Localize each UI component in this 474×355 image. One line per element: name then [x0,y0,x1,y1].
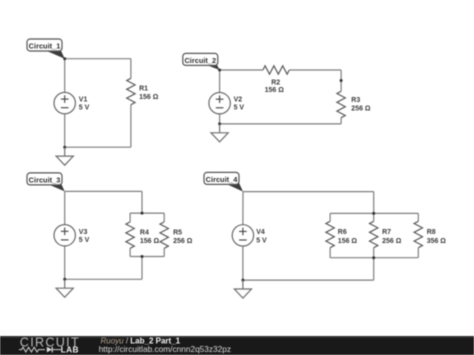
wire left lower [219,114,221,124]
svg-text:Circuit_4: Circuit_4 [206,175,239,184]
svg-text:LAB: LAB [61,345,79,355]
svg-text:R5: R5 [173,229,182,236]
wire top [65,190,142,192]
svg-text:156 Ω: 156 Ω [139,94,159,101]
R7 top lead [373,213,375,221]
wire top: node to R1 top corner [65,58,131,60]
resistor R3 [337,91,345,117]
svg-text:R3: R3 [351,97,360,104]
svg-text:5 V: 5 V [256,237,267,244]
resistor R6 [326,221,334,247]
wire top-right down to parallel bar [141,191,143,213]
R4 bottom lead [129,248,131,256]
node D bottom bar [372,256,375,259]
svg-text:256 Ω: 256 Ω [351,106,371,113]
wire left upper: node to V3 [64,191,66,224]
R8 bottom lead [417,248,419,258]
wire right upper [130,59,132,79]
resistor R1 [127,78,135,104]
parallel bottom bar [130,256,164,258]
wire right lower: R3 to bottom [340,118,342,124]
R6 top lead [329,213,331,221]
resistor R7 [370,221,378,247]
wire left lower [64,246,66,279]
svg-text:http://circuitlab.com/cnnn2q53: http://circuitlab.com/cnnn2q53z32pz [99,344,231,354]
logo diode [47,347,52,353]
wire top-left: node to R2 [220,69,263,71]
svg-text:356 Ω: 356 Ω [427,238,447,245]
node C bottom-left [63,278,66,281]
logo resistor zigzag [19,347,45,352]
R7 bottom lead [373,248,375,258]
wire left upper: node to V4 [242,192,244,225]
svg-text:256 Ω: 256 Ω [382,238,402,245]
wire left upper: node to V1 [64,59,66,93]
node C bottom bar [141,255,144,258]
R4 top lead [129,213,131,222]
svg-text:256 Ω: 256 Ω [173,238,193,245]
callout Circuit_4 [204,172,243,191]
svg-text:R8: R8 [427,229,436,236]
svg-text:5 V: 5 V [234,105,245,112]
wire top [243,191,374,193]
ground circuit 3 [56,279,73,297]
parallel bottom bar [330,257,418,259]
parallel top bar [330,212,418,214]
svg-text:R7: R7 [382,229,391,236]
callout Circuit_2 [183,53,220,70]
ground circuit 4 [234,280,251,298]
wire down to parallel top bar [373,192,375,214]
svg-text:R4: R4 [140,229,149,236]
wire top-right: R2 to corner [289,69,341,71]
node D bottom-left [241,279,244,282]
node A1 bottom [63,146,66,149]
svg-text:R1: R1 [139,86,148,93]
svg-text:156 Ω: 156 Ω [140,238,160,245]
node B bottom [218,122,221,125]
voltage source V4 [232,225,253,246]
R6 bottom lead [329,248,331,258]
label V1 value [79,86,159,112]
R5 top lead [163,213,165,222]
callout Circuit_3 [27,173,65,192]
wire right upper corner to R3 [340,70,342,91]
resistor R2 [263,66,289,74]
wire bottom [65,278,142,280]
svg-text:156 Ω: 156 Ω [338,238,358,245]
ground circuit 2 [211,124,228,142]
svg-text:Circuit_1: Circuit_1 [29,41,61,50]
resistor R4 [126,222,134,248]
svg-text:156 Ω: 156 Ω [265,87,285,94]
wire from bar down [141,257,143,280]
svg-text:V1: V1 [79,96,88,103]
node D top bar [372,212,375,215]
svg-text:V2: V2 [234,97,243,104]
wire from bar down [373,258,375,280]
voltage source V3 [54,225,75,246]
voltage source V1 [54,92,75,113]
resistor R5 [160,222,168,248]
voltage source V2 [209,93,230,114]
node B top-left [218,69,221,72]
svg-text:V4: V4 [256,229,265,236]
svg-text:Circuit_2: Circuit_2 [184,56,216,65]
node C top bar [141,212,144,215]
wire left upper: node to V2 [219,70,221,93]
wire left lower [242,246,244,280]
wire bottom [243,279,374,281]
ground circuit 1 [56,147,73,165]
svg-text:V3: V3 [79,229,88,236]
wire bottom [65,146,131,148]
svg-text:5 V: 5 V [79,105,90,112]
callout Circuit_1 [27,39,65,59]
wire left lower: V1 to bottom [64,114,66,148]
R5 bottom lead [163,248,165,256]
svg-text:R6: R6 [338,229,347,236]
svg-text:Circuit_3: Circuit_3 [29,175,61,184]
wire right lower [130,105,132,148]
svg-text:5 V: 5 V [79,237,90,244]
wire bottom [220,123,342,125]
node B right [340,79,343,82]
node A1 top-left [63,57,66,60]
R8 top lead [417,213,419,221]
parallel top bar [130,212,164,214]
svg-text:R2: R2 [271,80,280,87]
resistor R8 [414,221,422,247]
